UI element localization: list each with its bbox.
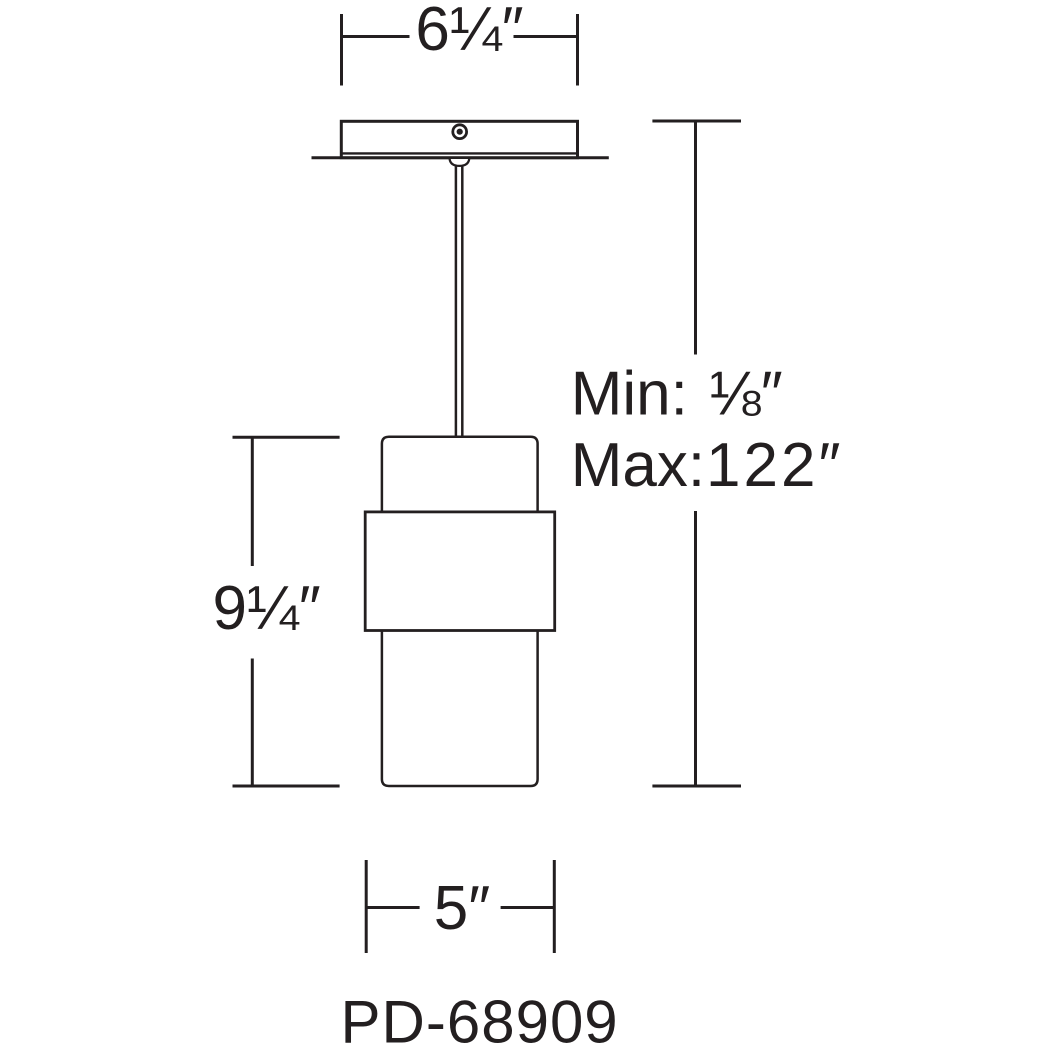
suspension stem right line: [461, 166, 464, 437]
right hanging-length dimension: vertical line lower segment: [694, 511, 697, 786]
shade upper glass section: [382, 437, 538, 513]
right hanging-length dimension: top extension tick: [652, 120, 741, 123]
svg-text:Max:122″: Max:122″: [571, 431, 844, 500]
bottom width dimension: dimension line right segment: [501, 906, 555, 909]
svg-text:5″: 5″: [434, 874, 490, 943]
center metal band: [365, 512, 555, 631]
svg-text:9¼″: 9¼″: [213, 574, 321, 643]
cable strain-relief dome under canopy: [450, 159, 470, 166]
top width dimension: dimension line left segment: [342, 35, 410, 38]
bottom width dimension: left extension tick: [365, 860, 368, 953]
top width dimension: dimension line right segment: [514, 35, 578, 38]
svg-text:Min:⅛″: Min:⅛″: [571, 360, 783, 429]
svg-text:PD-68909: PD-68909: [341, 989, 619, 1056]
right hanging-length dimension: vertical line upper segment: [694, 121, 697, 355]
bottom width dimension: dimension line left segment: [366, 906, 419, 909]
ceiling line: [312, 156, 609, 159]
left height dimension: top extension tick: [233, 436, 340, 439]
center screw inner dot: [457, 129, 463, 135]
suspension stem left line: [455, 166, 458, 437]
top width dimension: right extension tick: [576, 14, 579, 86]
bottom width dimension: right extension tick: [553, 860, 556, 953]
top width dimension: left extension tick: [340, 14, 343, 86]
left height dimension: vertical line lower segment: [251, 659, 254, 787]
canopy plate (mounting plate): [341, 121, 577, 157]
canopy bottom inner line: [341, 152, 577, 154]
right hanging-length dimension: bottom extension tick: [652, 785, 741, 788]
center screw on canopy: [453, 125, 467, 139]
left height dimension: vertical line upper segment: [251, 437, 254, 566]
shade lower glass section: [382, 630, 538, 787]
left height dimension: bottom extension tick: [233, 785, 340, 788]
svg-text:6¼″: 6¼″: [415, 0, 523, 64]
